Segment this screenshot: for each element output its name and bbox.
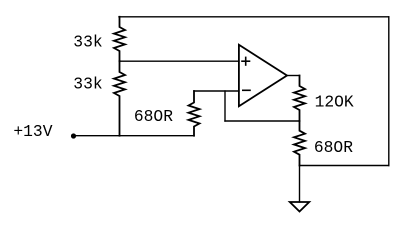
ground — [290, 202, 309, 212]
op-amp U1 minus pin mark — [243, 89, 250, 91]
wire ground node down — [299, 166, 301, 203]
svg-text:12OK: 12OK — [315, 93, 354, 112]
svg-text:33k: 33k — [73, 75, 102, 94]
svg-text:68OR: 68OR — [314, 138, 353, 157]
wire bottom-right to ground node — [300, 165, 389, 167]
wire top rail from 33k chain top to right edge — [119, 16, 389, 18]
wire op-amp output — [287, 75, 300, 77]
svg-text:68OR: 68OR — [134, 107, 173, 126]
resistor R3 680R (vertical, from +13V rail to inverting input) — [189, 91, 200, 136]
svg-text:+13V: +13V — [13, 122, 52, 141]
terminal dot +13V — [71, 133, 76, 138]
wire R3 top to op-amp inverting input — [194, 90, 239, 92]
op-amp U1 plus pin mark — [242, 57, 250, 65]
wire node A to op-amp non-inverting input — [120, 60, 239, 62]
wire feedback to 120K/680R junction — [225, 120, 300, 122]
svg-text:33k: 33k — [73, 33, 102, 52]
wire feedback tap down from inverting input — [224, 91, 226, 121]
op-amp U1 triangle — [239, 45, 287, 106]
resistor R2 33k (second) — [114, 61, 125, 136]
wire right edge down — [388, 17, 390, 166]
wire +13V rail — [74, 135, 195, 137]
resistor R5 680R (feedback junction to ground node) — [294, 121, 305, 166]
resistor R4 120K (output to feedback junction) — [294, 76, 305, 122]
resistor R1 33k (top) — [114, 17, 125, 61]
